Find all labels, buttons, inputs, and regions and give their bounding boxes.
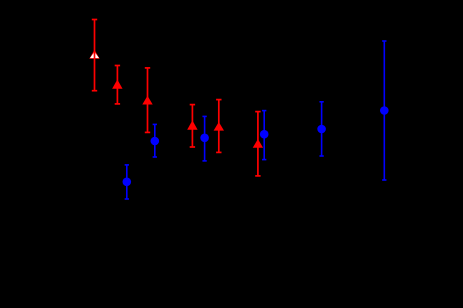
red data point T2 (filled triangle) <box>112 66 122 104</box>
blue data point C5 (filled circle) <box>317 102 326 156</box>
blue data point C2 (filled circle) <box>151 124 160 157</box>
red data point T1 (open triangle marker) <box>89 20 99 91</box>
red data point T4 (filled triangle) <box>187 105 197 147</box>
red data point T6 (filled triangle) <box>253 112 263 176</box>
blue data point C1 (filled circle) <box>123 165 132 199</box>
red data point T5 (filled triangle) <box>214 100 224 153</box>
blue data point C3 (filled circle) <box>200 116 209 160</box>
blue data point C4 (filled circle) <box>260 111 269 160</box>
red data point T3 (filled triangle) <box>142 68 152 132</box>
blue data point C6 (filled circle) <box>380 41 389 180</box>
